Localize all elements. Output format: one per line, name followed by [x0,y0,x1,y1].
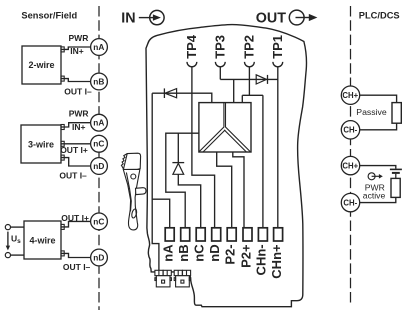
TP4 socket [187,62,197,67]
svg-text:nC: nC [93,216,104,226]
battery B1 plates [390,169,402,178]
Us supply terminal bottom [5,253,10,258]
wire TP3 stub [219,67,221,80]
node CH- (active) [341,193,359,211]
lock leg [123,169,140,230]
svg-text:nB: nB [176,244,191,261]
svg-text:IN: IN [121,10,135,26]
PWR output symbol [368,173,383,180]
svg-text:4-wire: 4-wire [29,235,55,245]
wire zener branch upper [177,133,179,162]
svg-text:CHn-: CHn- [254,244,269,275]
port tab 2-wire bottom [61,76,64,81]
terminal pad CHn+ [274,228,283,241]
left boundary dashed line [98,6,100,310]
wire 2-wire OUT I- to nB [61,79,91,82]
wire CH+ to passive load resistor [360,95,397,102]
zener diode Z1 [172,163,184,175]
terminal pad P2- [227,228,236,241]
svg-text:nC: nC [93,139,104,149]
node nA (2-wire PWR) [91,39,108,56]
svg-text:OUT: OUT [256,10,286,26]
port tab 3-wire bottom [61,155,64,160]
port tab 4-wire top [61,224,64,229]
wire 3-wire PWR/IN+ to nA [61,123,91,127]
svg-text:3-wire: 3-wire [28,139,54,149]
svg-text:2-wire: 2-wire [28,60,54,70]
svg-text:CH+: CH+ [342,91,358,100]
lock slot [131,209,137,219]
wire resistor to CH- [360,123,397,130]
svg-text:TP4: TP4 [184,34,199,59]
node nD (4-wire OUT I-) [91,249,108,266]
terminal pad nD [212,228,221,241]
wire output rail TP3 to TP1 [220,78,277,80]
node CH- (passive) [341,121,359,139]
port tab 2-wire top [61,47,64,52]
wire CH+ to battery [360,166,396,169]
svg-text:OUT I–: OUT I– [59,170,87,180]
wire 4-wire OUT I+ to nC [61,221,91,227]
TP2 socket [245,62,255,67]
Us supply terminal top [5,225,10,230]
svg-text:OUT I–: OUT I– [63,262,91,272]
node nD (3-wire OUT I-) [91,158,108,175]
svg-text:active: active [363,191,386,201]
node nC (3-wire OUT I+) [91,135,108,152]
node CH+ (active) [341,156,359,174]
lock tab to device edge [136,188,147,195]
svg-text:nB: nB [93,76,104,86]
node CH+ (passive) [341,86,359,104]
wire CHn- feed [262,95,264,228]
svg-text:Us: Us [11,234,21,246]
svg-text:nD: nD [93,161,104,171]
svg-text:TP2: TP2 [241,35,256,59]
4-wire sensor box [24,221,61,259]
svg-text:nA: nA [93,118,104,128]
2-wire sensor box [22,46,61,84]
wire Us bottom terminal to 4-wire box [11,254,25,256]
wire Us top terminal to 4-wire box [11,226,25,228]
svg-text:Passive: Passive [356,107,387,117]
wire TP4 stub [191,67,193,94]
wire jumper feed from nA branch [152,199,159,270]
svg-text:TP1: TP1 [270,35,285,59]
svg-text:P2-: P2- [223,244,238,264]
node nA (3-wire PWR) [91,114,108,131]
svg-text:P2+: P2+ [238,244,253,268]
jumper plug 2 [174,270,191,287]
port tab 3-wire top [61,125,64,130]
terminal pad nB [181,228,190,241]
wire 2-wire PWR/IN+ to nA [61,47,91,49]
resistor R1 (passive load) [392,103,401,124]
lock knob [131,174,136,179]
wire 3-wire OUT I- to nD [61,158,91,166]
port tab 4-wire bottom [61,251,64,256]
wire 4-wire OUT I- to nD [61,253,91,257]
wire output rail drop to box top [233,79,235,102]
wire TP2 vertical [248,67,250,96]
svg-text:nC: nC [192,244,207,262]
DIN rail metal lock [121,153,146,230]
wire TP4 to nD pad [192,93,215,228]
wire TP2 link to box and CHn- [242,94,263,96]
lock head [124,153,141,172]
jumper plug 1 [155,270,172,287]
wire 3-wire OUT I+ to nC [61,143,91,145]
IN current-source symbol [139,10,164,24]
svg-text:CH+: CH+ [342,161,358,170]
port tab 3-wire middle [61,141,64,146]
3-wire sensor box [21,125,61,163]
diode D1 (input rail, pointing left) [164,88,176,98]
svg-text:nA: nA [161,244,176,262]
svg-text:nA: nA [93,42,104,52]
wire resistor to CH- (active) [360,197,396,202]
Us arrow [6,232,10,251]
svg-text:PLC/DCS: PLC/DCS [359,10,400,20]
wire box bottom port to P2- pad [217,152,232,228]
isolator device outline [146,25,307,307]
isolation amplifier U1 [199,103,251,152]
svg-text:PWR: PWR [69,109,89,119]
svg-text:IN+: IN+ [70,46,84,56]
svg-text:CHn+: CHn+ [269,244,284,279]
svg-text:nD: nD [93,252,104,262]
wire TP2 link drop to box top [241,95,243,102]
node nB (2-wire OUT) [91,73,108,90]
lock serrated edge [121,154,127,169]
terminal pad CHn- [258,228,267,241]
wire box left port to nB pad [166,133,199,228]
svg-text:IN+: IN+ [72,122,86,132]
node nC (4-wire OUT I+) [91,213,108,230]
terminal pad nC [196,228,205,241]
resistor R2 (active source) [391,178,400,197]
OUT current-output symbol [289,10,317,25]
svg-text:nD: nD [207,244,222,261]
lock leg inner line [126,173,131,212]
TP1 socket [273,62,283,67]
wire nA feed (rail left end down to pad nA) [152,93,170,228]
svg-text:CH-: CH- [343,126,357,135]
svg-text:Sensor/Field: Sensor/Field [21,10,77,20]
svg-text:OUT I–: OUT I– [64,87,92,97]
svg-text:PWR: PWR [69,33,89,43]
wire input rail (TP4 rail) [152,93,212,102]
terminal pad P2+ [243,228,252,241]
TP3 socket [215,62,225,67]
diode D2 (output rail, pointing right) [256,75,267,84]
wire box bottom port to P2+ pad [233,152,244,228]
svg-text:TP3: TP3 [212,35,227,59]
terminal pad nA [165,228,174,241]
wire TP1 to CHn+ pad [277,67,279,228]
wire zener to nC pad [178,174,200,228]
svg-text:CH-: CH- [343,198,357,207]
right boundary dashed line [350,6,352,305]
